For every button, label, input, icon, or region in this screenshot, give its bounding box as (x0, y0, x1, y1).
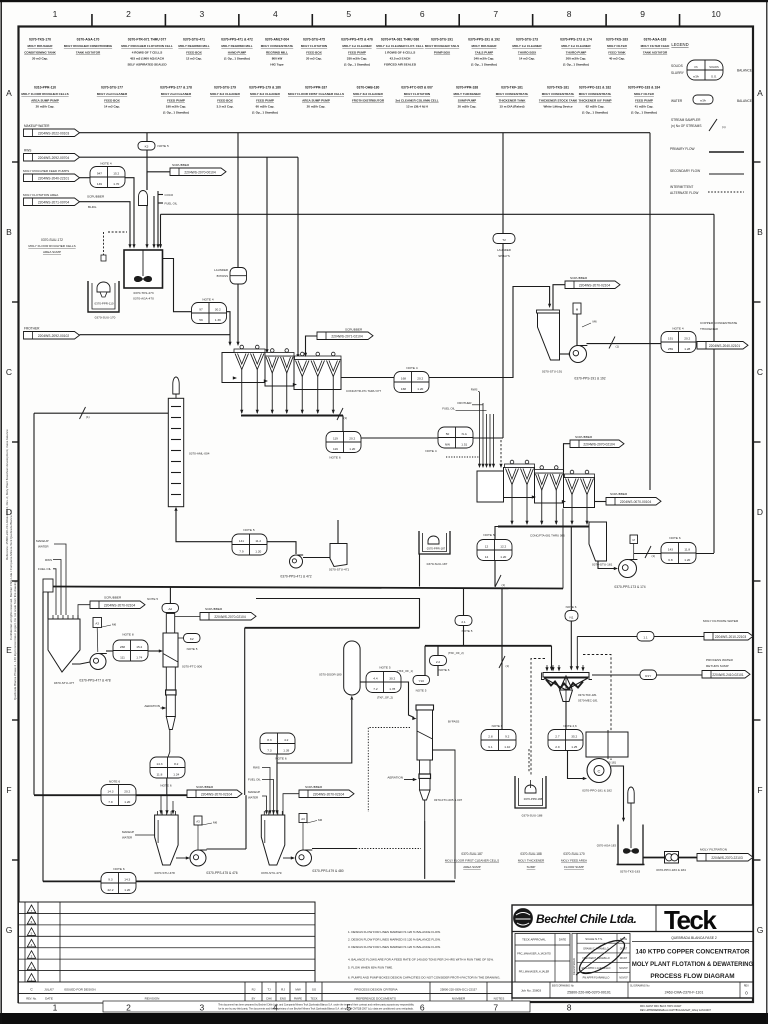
svg-text:MOLY FLOOR ROUGHER CELLS: MOLY FLOOR ROUGHER CELLS (28, 244, 75, 248)
svg-text:FEED TANK: FEED TANK (608, 50, 626, 54)
wire scavenger tails drop lower (501, 642, 503, 730)
svg-text:RJ: RJ (252, 988, 256, 992)
svg-text:NOTE 6: NOTE 6 (566, 605, 577, 609)
svg-text:SCRUBBER: SCRUBBER (305, 785, 323, 789)
svg-text:(1 Op., 1 Standby): (1 Op., 1 Standby) (563, 63, 589, 67)
svg-text:2204WS-2022-00103: 2204WS-2022-00103 (38, 131, 70, 135)
svg-text:NOTES: NOTES (494, 997, 505, 1001)
svg-text:M6: M6 (112, 623, 116, 627)
stream flag 2204WS-2070-02104 group1 scrubber (187, 790, 242, 798)
svg-text:2204WS-2040-02101: 2204WS-2040-02101 (709, 344, 741, 348)
svg-text:1.20: 1.20 (684, 558, 690, 562)
svg-text:0370-FTR-071 THRU 077: 0370-FTR-071 THRU 077 (128, 38, 167, 42)
svg-text:50: 50 (446, 432, 450, 436)
svg-text:0370-FTC-005 & 007: 0370-FTC-005 & 007 (401, 86, 433, 90)
sampler on mill feed line (80, 407, 90, 419)
svg-text:0370-AMLT-004: 0370-AMLT-004 (265, 38, 289, 42)
equipment title block 0370-TKS-183 (606, 38, 628, 61)
wire fuel oil drop (53, 569, 56, 615)
wire bottom tails header bold b (136, 880, 455, 882)
svg-text:0370-PPS-173 & 174: 0370-PPS-173 & 174 (614, 585, 645, 589)
svg-text:SLI DRAWING No: SLI DRAWING No (630, 985, 650, 988)
wire pump discharge to thickener (587, 343, 662, 345)
svg-text:NOTE 6: NOTE 6 (439, 668, 450, 672)
wire tank vent to scrubber flag (78, 605, 90, 619)
svg-text:NOTE 4: NOTE 4 (202, 298, 213, 302)
svg-text:20 m3/h Cap.: 20 m3/h Cap. (307, 105, 326, 109)
wire bank B tails drop to header (562, 509, 564, 589)
svg-text:0370-STU-478: 0370-STU-478 (154, 871, 175, 875)
svg-text:BYPASS: BYPASS (448, 720, 459, 724)
gear pump PPO-183 and 184 (665, 852, 679, 864)
svg-text:1.20: 1.20 (124, 888, 130, 892)
svg-text:0370-OHB-180: 0370-OHB-180 (357, 86, 380, 90)
svg-text:HIG Type: HIG Type (270, 63, 283, 67)
agitated filter feed tank TKS-183 (617, 787, 645, 865)
wire aeration arrow 3rd column (404, 779, 414, 781)
legend primary flow (670, 147, 744, 152)
svg-text:m3/h: m3/h (693, 75, 700, 79)
svg-text:191: 191 (668, 336, 673, 340)
stream flag 2204WS-2070-02104 group2 scrubber (299, 790, 354, 798)
svg-text:0370-PPS-177 & 178: 0370-PPS-177 & 178 (160, 86, 192, 90)
wire standpipe to tank top (47, 592, 49, 619)
svg-text:97: 97 (199, 307, 203, 311)
svg-text:FEED PUMP: FEED PUMP (348, 50, 366, 54)
svg-text:MOLY ROUGHER CONDITIONING: MOLY ROUGHER CONDITIONING (64, 44, 113, 48)
svg-text:0370-PPS-471 & 472: 0370-PPS-471 & 472 (221, 38, 253, 42)
wire dotted intermittent feed (446, 456, 479, 458)
pump PPS-479 and 480 (296, 850, 344, 873)
svg-text:4 ROWS OF 7 CELLS: 4 ROWS OF 7 CELLS (132, 50, 162, 54)
svg-text:INTERMITTENT: INTERMITTENT (670, 185, 693, 189)
wire oval to oval segment y=438 (361, 437, 438, 439)
wire motor drop PPS-479 (302, 823, 304, 851)
text block 0370-SUU-170 feed area sump (561, 852, 587, 869)
svg-text:5: 5 (346, 9, 351, 19)
wire leader M6 PPS-475 (202, 823, 212, 825)
equipment title block 0370-PPS-173 & 174 (560, 38, 592, 67)
stream flag 2204WS-2022-00103 makeup water (24, 129, 80, 137)
svg-text:9: 9 (640, 9, 645, 19)
svg-text:4: 4 (273, 1003, 278, 1013)
svg-text:NOTE 5: NOTE 5 (243, 528, 254, 532)
svg-text:0370-AGA-183: 0370-AGA-183 (597, 844, 617, 848)
svg-text:MOLY CONCENTRATE: MOLY CONCENTRATE (496, 92, 528, 96)
wire bold tails header y=795 (34, 794, 101, 796)
equipment title block 0370-PPO-181 & 182 (578, 86, 611, 115)
svg-text:R1Y: R1Y (645, 674, 651, 678)
svg-text:(TKF_OF_2): (TKF_OF_2) (448, 651, 464, 655)
svg-text:MOLY 1st CLEANER: MOLY 1st CLEANER (561, 44, 591, 48)
svg-text:QUEBRADA BLANCA FASE 2: QUEBRADA BLANCA FASE 2 (671, 936, 717, 940)
wire capsule 2.1 to thickener header (463, 626, 465, 646)
capsule N1 (565, 611, 578, 622)
svg-text:JUL/07: JUL/07 (44, 988, 54, 992)
wire scrubber flag connector to pump box (553, 285, 565, 310)
svg-text:(1 Op., 1 Standby): (1 Op., 1 Standby) (252, 111, 278, 115)
svg-text:7.3: 7.3 (267, 748, 272, 752)
wire oval to pump PPS-471 (267, 542, 296, 554)
thickener TKF-181 (542, 673, 593, 702)
wire fuel oil elbow (456, 409, 487, 411)
scan edge left line (0, 0, 2, 1024)
svg-text:NOTE 4: NOTE 4 (425, 449, 436, 453)
cleaner feed drop wires into feed box (478, 392, 495, 468)
wire filtrate line to flag (654, 636, 704, 638)
degassing vessel DSOR-180 (344, 641, 360, 695)
wire aeration line (161, 707, 164, 709)
wire pump feed from above x=608 (607, 730, 609, 759)
flotation bank FTA cleaner cells 1-2 (504, 460, 535, 497)
svg-text:(1): (1) (86, 415, 90, 419)
svg-text:2204WS-2071-02104: 2204WS-2071-02104 (331, 334, 363, 338)
stream flag 2204WS-2070-02104 cleaner scrubber (570, 440, 624, 448)
svg-text:12: 12 (485, 544, 489, 548)
balance oval cleaner concentrate (477, 540, 512, 561)
equipment title block 0370-TKF-181 (496, 86, 528, 109)
svg-text:0370-SUU-188: 0370-SUU-188 (522, 814, 543, 818)
sampler on copper concentrate line (609, 337, 619, 349)
scale approvals table (575, 934, 630, 983)
svg-text:DIC/07: DIC/07 (620, 957, 628, 960)
svg-text:1.20: 1.20 (124, 800, 130, 804)
svg-text:FEED BOX: FEED BOX (186, 50, 202, 54)
svg-text:0370-PPR-187: 0370-PPR-187 (305, 86, 327, 90)
drawing title text (632, 949, 754, 981)
wire launder capsule to scrubber flag (147, 172, 170, 190)
svg-text:20.2: 20.2 (124, 789, 130, 793)
wire drop x=267 RWS header to rougher bank 2 (266, 157, 268, 352)
pump PPO-181 and 182 thickener underflow (587, 759, 611, 783)
svg-text:AERATION: AERATION (387, 776, 403, 780)
svg-text:STREAM SAMPLER: STREAM SAMPLER (671, 118, 701, 122)
svg-text:190 m3/h Cap.: 190 m3/h Cap. (166, 105, 187, 109)
svg-text:MOLY FILTER: MOLY FILTER (607, 44, 628, 48)
wire bold tails header y=795 b (136, 794, 187, 796)
svg-text:MOLY ROUGHER: MOLY ROUGHER (28, 44, 54, 48)
flotation column FTC-006 (163, 614, 178, 753)
flotation column FTC-005 and 007 (416, 705, 434, 821)
svg-text:NOTE 6: NOTE 6 (160, 784, 171, 788)
svg-text:4: 4 (273, 9, 278, 19)
wire feed box inflow from fence (337, 520, 339, 544)
svg-text:0370-PPO-181 & 182: 0370-PPO-181 & 182 (582, 789, 612, 793)
revision table grid (19, 902, 316, 1003)
balance oval cleaner tails (661, 543, 696, 564)
svg-text:2204WS-2070-02104: 2204WS-2070-02104 (201, 792, 233, 796)
svg-text:6.8: 6.8 (668, 558, 673, 562)
svg-text:2204WS-2092-00704: 2204WS-2092-00704 (38, 156, 70, 160)
balance oval tank outlet (192, 303, 227, 324)
wire tank TKS-473 outlet (163, 259, 192, 312)
wire vessel to pump suction (598, 561, 616, 569)
svg-text:30.2: 30.2 (215, 307, 221, 311)
svg-text:15 m DIA (Raked): 15 m DIA (Raked) (500, 105, 525, 109)
standpipe box at feed tank (43, 579, 53, 592)
svg-text:0370-TKF-181: 0370-TKF-181 (501, 86, 523, 90)
svg-text:RWS: RWS (24, 149, 31, 153)
svg-text:REGRIND MILL: REGRIND MILL (266, 50, 288, 54)
svg-text:TAILS PUMP: TAILS PUMP (475, 50, 493, 54)
wire fuel oil drop STU-479 (262, 780, 274, 813)
wire column launder to capsule (178, 637, 184, 639)
wire oval group2 drop x=277 (276, 754, 278, 812)
capsule T2 launder (493, 234, 515, 244)
svg-text:MOLY ROUGHER: MOLY ROUGHER (472, 44, 498, 48)
svg-text:0370-SUU-187: 0370-SUU-187 (461, 852, 482, 856)
svg-text:6: 6 (420, 1003, 425, 1013)
sump pit SUU-188 with pump PPR-188 (515, 776, 546, 808)
svg-text:NOTE 4: NOTE 4 (100, 162, 111, 166)
svg-text:K2: K2 (190, 637, 194, 641)
svg-text:NOTE 5: NOTE 5 (379, 666, 390, 670)
wire thickener underflow (565, 701, 567, 730)
equipment title block 0370-PPS-179 & 180 (249, 86, 281, 115)
svg-text:FUEL OIL: FUEL OIL (38, 567, 52, 571)
agitated tank TKS-473 (124, 250, 163, 288)
svg-text:0370-TKS-181: 0370-TKS-181 (547, 86, 569, 90)
quebrada blanca band (632, 941, 753, 943)
equipment title block 0370-FTA-081 THRU 086 (376, 38, 424, 67)
svg-text:8: 8 (567, 1003, 572, 1013)
svg-text:20 m3/h Cap.: 20 m3/h Cap. (36, 105, 55, 109)
svg-text:453 m3 (1600 ft3) EACH: 453 m3 (1600 ft3) EACH (130, 57, 164, 61)
wire rougher feed flag to balance oval (80, 177, 91, 179)
svg-text:K3: K3 (145, 145, 149, 149)
flotation bank FTR rougher cells 5-7 (294, 352, 341, 389)
svg-text:3: 3 (200, 1003, 205, 1013)
svg-text:15.2: 15.2 (136, 645, 142, 649)
wire tank to pump suction PPS-177 (72, 662, 90, 664)
svg-text:PM.APPR P.JARAMILLO: PM.APPR P.JARAMILLO (583, 977, 610, 980)
stream flag 2204WS-2092-00102 frother (24, 332, 80, 340)
wire dashed float drop (103, 232, 105, 255)
svg-text:9.3: 9.3 (108, 877, 113, 881)
svg-text:NOTE 6: NOTE 6 (113, 867, 124, 871)
svg-text:NOTE 5: NOTE 5 (147, 597, 158, 601)
svg-text:14 m3 Cap.: 14 m3 Cap. (104, 105, 120, 109)
svg-text:MOLY FLOOR FIRST CLEANER CELLS: MOLY FLOOR FIRST CLEANER CELLS (288, 92, 344, 96)
svg-text:MOLY 2nd CLEANER: MOLY 2nd CLEANER (161, 92, 192, 96)
svg-text:AREA SUMP: AREA SUMP (43, 250, 61, 254)
svg-text:MOLY FLOOR ROUGHER CELLS: MOLY FLOOR ROUGHER CELLS (21, 92, 68, 96)
svg-text:White Lifting Device: White Lifting Device (543, 105, 572, 109)
svg-text:168: 168 (401, 387, 406, 391)
svg-text:0370-SUU-188: 0370-SUU-188 (520, 852, 541, 856)
svg-text:C: C (757, 367, 763, 377)
stream flag 2204WS-2070-02104 tank scrubber (90, 601, 145, 609)
svg-text:SG: SG (312, 988, 317, 992)
wire thickener overflow line (592, 674, 640, 676)
svg-text:3.5 m3 Cap.: 3.5 m3 Cap. (217, 105, 234, 109)
wire motor to pump PPS-177 (96, 628, 99, 653)
svg-text:MOLY 3rd CLEANER: MOLY 3rd CLEANER (210, 92, 240, 96)
cleaner tails tank STU-479 (261, 811, 285, 865)
svg-text:FUEL OIL: FUEL OIL (165, 202, 178, 206)
cleaner bank interconnect arrow 1 (532, 495, 536, 498)
svg-text:FUEL OIL: FUEL OIL (442, 407, 455, 411)
svg-text:1.39: 1.39 (283, 748, 289, 752)
svg-text:20 m3 Cap.: 20 m3 Cap. (306, 57, 322, 61)
svg-text:5. FLOW WHEN 65% RUN TIME.: 5. FLOW WHEN 65% RUN TIME. (348, 966, 393, 970)
svg-text:14.3: 14.3 (156, 762, 162, 766)
svg-text:THICKENER: THICKENER (700, 327, 719, 331)
pump PPS-191 and 192 (570, 346, 606, 381)
svg-text:4.2: 4.2 (284, 738, 289, 742)
motor box A3 pump PPS-479 (299, 814, 307, 823)
svg-text:MOLY PLANT FLOTATION & DEWA: MOLY PLANT FLOTATION & DEWATERING (632, 962, 754, 968)
svg-text:M6: M6 (593, 320, 597, 324)
svg-text:MOLY FILTRATION: MOLY FILTRATION (700, 848, 727, 852)
svg-text:REV LMTBZWEBMwBcom.bGHTBVGJIAZ: REV LMTBZWEBMwBcom.bGHTBVGJIAZGAT_GfGqr … (640, 1009, 712, 1012)
svg-text:0370-AGA-470: 0370-AGA-470 (133, 297, 154, 301)
svg-text:8: 8 (567, 9, 572, 19)
svg-text:RETURN SUMP: RETURN SUMP (706, 664, 729, 668)
svg-text:0370-TKS-183: 0370-TKS-183 (606, 38, 628, 42)
svg-text:0370-TKS-170: 0370-TKS-170 (29, 38, 51, 42)
svg-text:E: E (757, 645, 763, 655)
equipment title block 0370-PPS-177 & 178 (160, 86, 192, 115)
svg-text:MOLY 1st CLEANER FLOT. CELL: MOLY 1st CLEANER FLOT. CELL (376, 44, 424, 48)
svg-text:143: 143 (668, 547, 673, 551)
svg-text:0370-PPS-475 & 476: 0370-PPS-475 & 476 (341, 38, 373, 42)
svg-text:259: 259 (668, 347, 673, 351)
stream flag 2204WS-2070-02104 pump box scrubber (565, 281, 620, 289)
svg-text:C: C (6, 367, 12, 377)
balance oval 2nd cleaner feed (113, 640, 148, 661)
svg-text:340 m3/h Cap.: 340 m3/h Cap. (474, 57, 495, 61)
svg-text:14 m3 Cap.: 14 m3 Cap. (519, 57, 535, 61)
capsule launder bypass (230, 268, 247, 285)
svg-text:BALANCE: BALANCE (737, 99, 752, 103)
equipment title block 0310-PPR-110 (21, 86, 68, 109)
svg-text:0370-SUU-172: 0370-SUU-172 (41, 238, 63, 242)
svg-text:PRIMARY FLOW: PRIMARY FLOW (670, 147, 695, 151)
svg-text:FEED PUMP: FEED PUMP (167, 98, 185, 102)
wire scrubber flag drop to bank3 (306, 336, 318, 355)
svg-text:PROCESS DESIGN CRITERIA: PROCESS DESIGN CRITERIA (354, 988, 398, 992)
svg-text:1.51: 1.51 (461, 442, 467, 446)
teck approval table (515, 934, 570, 983)
row ticks left border (12, 162, 19, 860)
wire column neck to header (169, 587, 171, 604)
wire left long riser x=34 (33, 413, 35, 795)
balance oval column tails (150, 757, 185, 778)
svg-text:2204WS-2010-22103: 2204WS-2010-22103 (715, 635, 747, 639)
svg-text:SCRUBBER: SCRUBBER (196, 785, 214, 789)
wire scavenger tails drop upper (501, 589, 503, 643)
svg-text:REFERENCE DOCUMENTS: REFERENCE DOCUMENTS (356, 997, 396, 1001)
wire COCO branch (158, 194, 163, 196)
svg-text:PM/PE: PM/PE (294, 997, 302, 1001)
equipment title block 0370-STU-173 (512, 38, 542, 61)
equipment title block 0370-AGA-183 (641, 38, 671, 55)
wire pump PPO-181 discharge (611, 766, 624, 819)
bank interconnect arrow 1 (233, 376, 237, 379)
wire K3 capsule to tank top (146, 150, 148, 191)
wire dashed float line to sump pump (108, 231, 127, 233)
wire 3rd column tail to bottom header (424, 821, 426, 879)
svg-text:5: 5 (346, 1003, 351, 1013)
svg-text:2.8: 2.8 (488, 734, 493, 738)
svg-text:1.20: 1.20 (255, 549, 261, 553)
svg-text:FORCED AIR SEALED: FORCED AIR SEALED (384, 63, 417, 67)
cleaner bank interconnect arrow 2 (562, 500, 566, 503)
motor box A3 pump PPS-475 (194, 816, 202, 825)
svg-text:8.2: 8.2 (174, 762, 179, 766)
equipment title block 0370-STU-179 (210, 86, 240, 109)
equipment title block 0370-STU-177 (97, 86, 128, 109)
svg-text:4. BALANCE FLOWS ARE FOR A FEE: 4. BALANCE FLOWS ARE FOR A FEED RATE OF … (348, 958, 494, 962)
svg-text:TECK: TECK (311, 997, 318, 1001)
wire leader M6 PPS-479 (307, 821, 317, 824)
svg-text:M6: M6 (213, 821, 217, 825)
wire drop to capsule 2.1 (463, 588, 465, 616)
Bechtel logo circle (514, 909, 533, 928)
svg-text:NOTE 5: NOTE 5 (158, 144, 169, 148)
svg-text:0370-PPS-475 & 476: 0370-PPS-475 & 476 (206, 871, 237, 875)
svg-text:C: C (598, 768, 601, 773)
svg-text:111: 111 (120, 655, 125, 659)
svg-text:0370-FTC-005 & 007: 0370-FTC-005 & 007 (434, 798, 463, 802)
wire rws drop (53, 560, 61, 616)
svg-text:168: 168 (401, 376, 406, 380)
bank interconnect arrow 2 (264, 379, 268, 382)
svg-text:MOLY REGRIND MILL: MOLY REGRIND MILL (178, 44, 209, 48)
svg-text:LAUNDER: LAUNDER (214, 268, 228, 272)
svg-text:NOTE 6: NOTE 6 (329, 456, 340, 460)
svg-text:(1 Op., 1 Standby): (1 Op., 1 Standby) (163, 111, 189, 115)
svg-text:M6: M6 (318, 818, 322, 822)
wire K3 drop x=147 through launder capsule to tank (146, 133, 148, 142)
svg-text:62 m3/h Cap.: 62 m3/h Cap. (586, 105, 605, 109)
svg-text:BSI'S DRAWING No: BSI'S DRAWING No (552, 985, 574, 988)
svg-text:0370-TKS-473: 0370-TKS-473 (133, 291, 153, 295)
svg-text:(1 Op., 1 Standby): (1 Op., 1 Standby) (582, 111, 608, 115)
svg-text:THURO BOX: THURO BOX (518, 50, 536, 54)
capsule Y10 (413, 676, 430, 685)
wire pump PPS-479 discharge (312, 848, 356, 850)
svg-text:Bechtel Chile Ltda.: Bechtel Chile Ltda. (536, 912, 636, 926)
svg-text:3: 3 (200, 9, 205, 19)
svg-text:0370-STU-471: 0370-STU-471 (183, 38, 205, 42)
svg-text:6. PUMPS AND PUMP BOXES DESIGN: 6. PUMPS AND PUMP BOXES DESIGN CAPACITIE… (348, 976, 500, 980)
svg-text:0370-PPR-188: 0370-PPR-188 (524, 797, 543, 801)
svg-text:NOTE 5: NOTE 5 (483, 533, 494, 537)
wire flotation area flag to tank drop x=130 (80, 202, 131, 246)
svg-text:0370-FTC-006: 0370-FTC-006 (182, 665, 202, 669)
title block header band line (512, 931, 753, 933)
wire oval to column arrow (148, 650, 160, 652)
svg-text:(1 Op., 1 Standby): (1 Op., 1 Standby) (344, 63, 370, 67)
capsule 1.1 filtrate (637, 632, 654, 642)
svg-text:m3/h: m3/h (700, 99, 707, 103)
svg-text:Y10: Y10 (418, 679, 424, 683)
svg-text:MOLY ROUGHER FLOTATION CELL: MOLY ROUGHER FLOTATION CELL (121, 44, 173, 48)
svg-text:SOLIDS: SOLIDS (671, 64, 683, 68)
svg-text:MOLY FLOTATION: MOLY FLOTATION (404, 92, 430, 96)
wire drop x=571.3 to thickener (570, 527, 572, 611)
equipment title block 0370-AMLT-004 (261, 38, 293, 67)
legend water balance symbol (671, 95, 752, 104)
svg-text:D: D (757, 507, 763, 517)
svg-text:MAKEUP: MAKEUP (248, 790, 260, 794)
pump PPS-471 and 472 (280, 555, 311, 579)
svg-text:CONC/FTR-071 THRU 077: CONC/FTR-071 THRU 077 (346, 389, 382, 393)
svg-text:(1 Op., 1 Standby): (1 Op., 1 Standby) (224, 57, 250, 61)
top ruler ticks (92, 14, 680, 26)
